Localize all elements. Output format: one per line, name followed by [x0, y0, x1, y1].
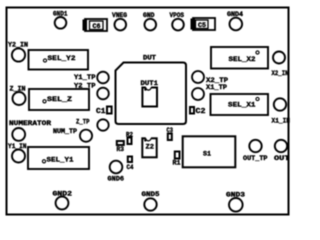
pad Y1_IN: [8, 143, 27, 162]
capacitor C4: [127, 157, 134, 173]
svg-text:SEL_Z: SEL_Z: [47, 96, 72, 104]
svg-text:R3: R3: [117, 146, 125, 154]
pad GND: [143, 12, 156, 31]
svg-text:Y1_TP: Y1_TP: [74, 74, 96, 82]
svg-text:SEL_Y1: SEL_Y1: [47, 157, 74, 165]
svg-text:R1: R1: [173, 160, 181, 168]
pad GND1: [53, 10, 68, 28]
zener Z2 (SOT footprint): [142, 137, 156, 157]
resistor R1: [173, 152, 181, 168]
pad GND6: [108, 161, 125, 184]
header SEL_Y1: [28, 147, 89, 169]
pad VPOS: [170, 12, 185, 31]
switch S1: [183, 136, 236, 167]
svg-text:Y2_TP: Y2_TP: [74, 82, 96, 90]
pad NUMERATOR: [9, 120, 52, 141]
header SEL_Y2: [29, 50, 89, 70]
svg-text:X1_IN: X1_IN: [272, 118, 291, 126]
svg-text:Z_TP: Z_TP: [76, 118, 90, 126]
svg-text:C4: C4: [127, 164, 134, 172]
svg-text:C2: C2: [196, 108, 206, 116]
testpoint X1_TP: [192, 84, 227, 100]
resistor R2: [126, 131, 133, 144]
svg-text:X2_IN: X2_IN: [272, 70, 289, 78]
capacitor C3: [167, 127, 174, 140]
resistor R3: [117, 141, 125, 154]
pad Z_IN: [10, 85, 26, 105]
testpoint Y2_TP: [74, 82, 109, 99]
pad GND3: [226, 192, 245, 212]
testpoint X2_TP: [192, 71, 228, 85]
svg-text:OUT_TP: OUT_TP: [243, 155, 268, 163]
svg-text:NUMERATOR: NUMERATOR: [9, 120, 52, 128]
svg-text:S1: S1: [203, 151, 211, 159]
pad GND5: [142, 191, 160, 211]
svg-text:C5: C5: [198, 22, 206, 29]
svg-text:C6: C6: [93, 23, 101, 30]
capacitor C1: [96, 107, 112, 117]
svg-text:OUT: OUT: [274, 155, 290, 163]
svg-text:GND6: GND6: [108, 176, 125, 184]
pad OUT: [274, 140, 290, 163]
header SEL_Z: [29, 89, 89, 110]
svg-text:SEL_Y2: SEL_Y2: [48, 55, 76, 63]
pad Y2_IN: [8, 41, 28, 61]
svg-text:X1_TP: X1_TP: [206, 84, 227, 92]
testpoint Y1_TP: [74, 72, 109, 84]
DUT outline: [116, 54, 187, 124]
svg-text:SEL_X1: SEL_X1: [228, 102, 256, 110]
capacitor C5: [191, 18, 216, 30]
pad GND2: [53, 190, 73, 209]
DUT1 (device under test, SOT footprint): [141, 80, 159, 107]
svg-text:DUT: DUT: [143, 54, 156, 62]
header SEL_X2: [211, 47, 268, 69]
board outline: [7, 8, 289, 215]
testpoint OUT_TP: [243, 140, 268, 163]
svg-text:Z2: Z2: [146, 144, 155, 152]
capacitor C2: [190, 107, 206, 116]
testpoint Z_TP: [76, 118, 109, 130]
pad GND4: [227, 11, 243, 31]
capacitor C6: [83, 19, 108, 31]
svg-text:NUM_TP: NUM_TP: [53, 128, 77, 136]
testpoint NUM_TP: [53, 128, 92, 142]
pad VNEG: [112, 12, 127, 31]
pad X1_IN: [272, 98, 291, 125]
pad X2_IN: [272, 52, 289, 79]
header SEL_X1: [211, 94, 269, 115]
svg-text:SEL_X2: SEL_X2: [229, 56, 256, 64]
svg-text:C1: C1: [96, 108, 106, 116]
